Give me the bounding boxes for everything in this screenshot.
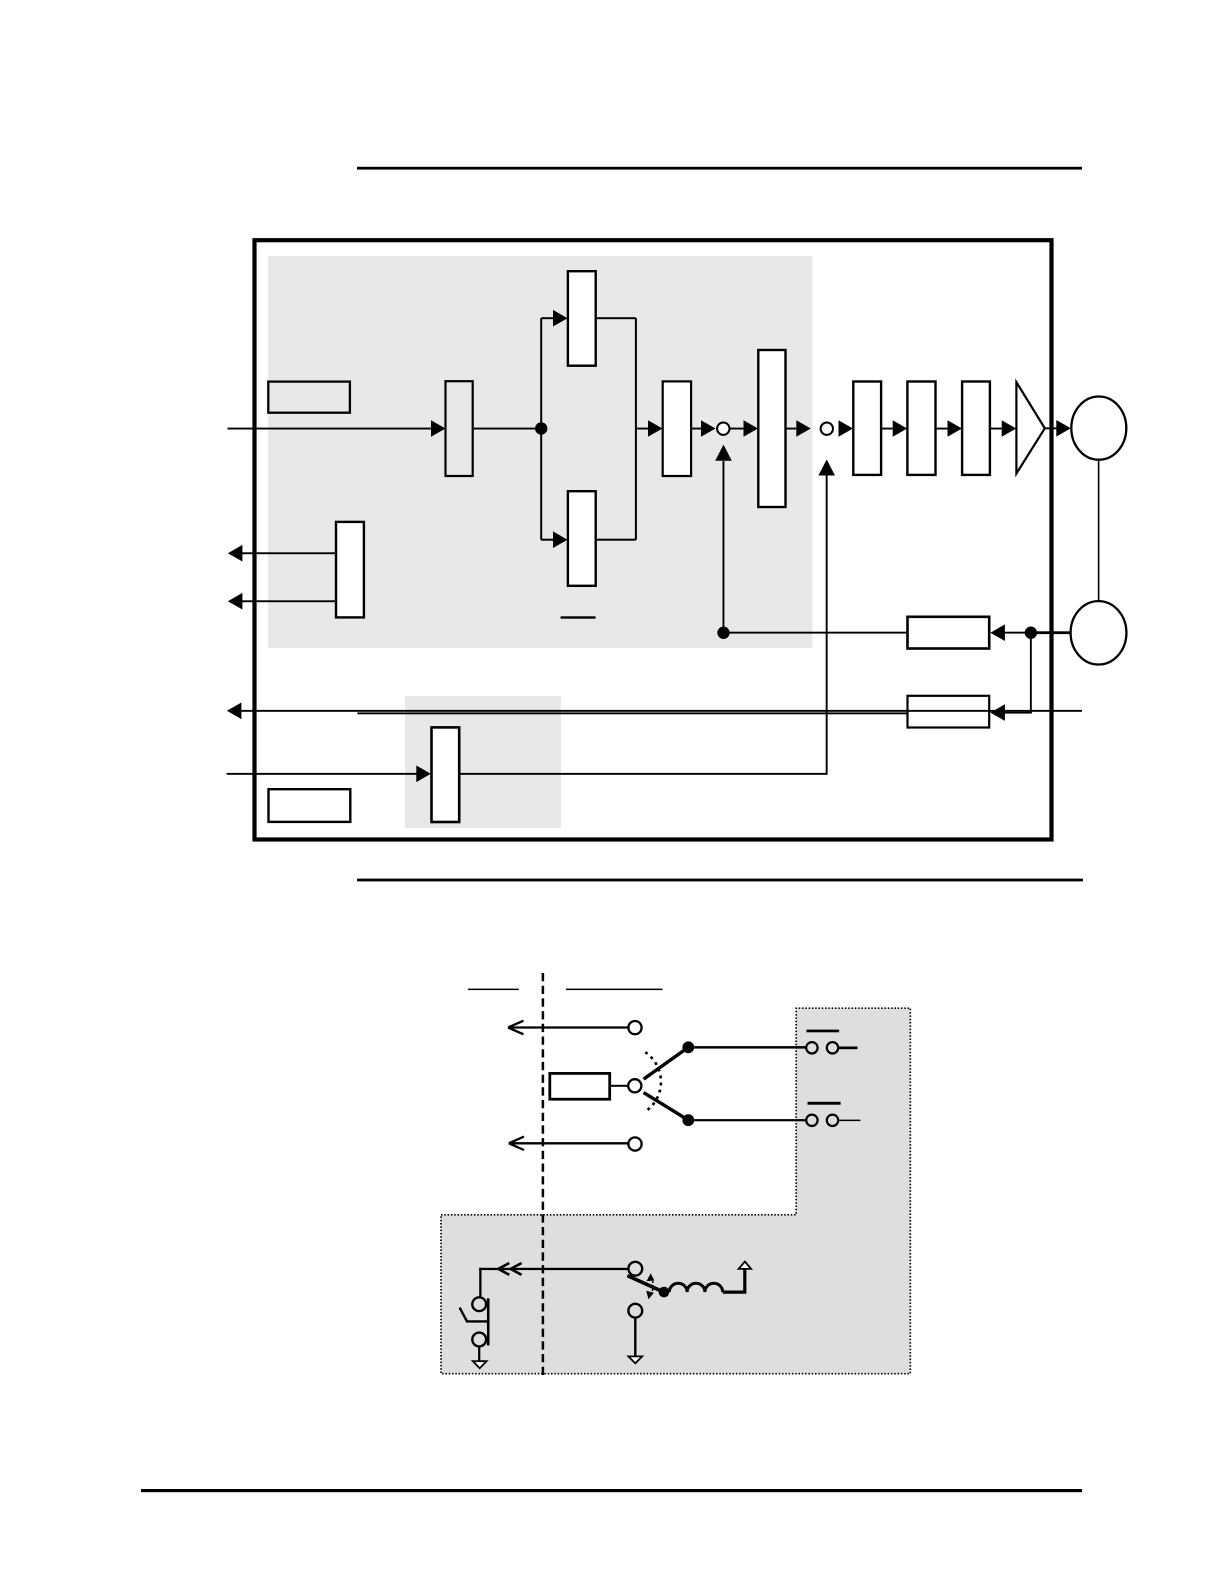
wire: junction vertical branch xyxy=(540,318,542,540)
middle horizontal rule xyxy=(357,879,1083,882)
relay coil (3 loops) xyxy=(669,1283,722,1292)
wire: RX pin into box xyxy=(1031,631,1071,634)
wire: merge vertical line xyxy=(635,318,637,540)
arrow into mid block xyxy=(648,420,663,437)
label box top-left xyxy=(268,382,350,413)
analog switch lower circle xyxy=(628,1304,642,1318)
arrow before gate circle 2 xyxy=(796,420,811,437)
relay contact dot upper xyxy=(682,1041,694,1053)
arrow into driver stage 2 xyxy=(893,420,908,437)
hook contact circle lower xyxy=(472,1333,486,1347)
arrow up into gate circle 1 xyxy=(715,445,732,461)
wire: B1 to junction xyxy=(473,428,542,430)
hook contact circle upper xyxy=(472,1297,486,1311)
terminal circle upper xyxy=(628,1021,641,1034)
wire: shift block to gate circle 2 xyxy=(786,428,797,430)
wire: lower terminal ground stem xyxy=(634,1318,636,1356)
receive register block xyxy=(432,727,460,822)
wire: RX dot vertical down xyxy=(1030,633,1032,713)
terminal circle lower xyxy=(628,1137,641,1150)
relay pivot circle xyxy=(628,1079,641,1092)
arrow into block B1 xyxy=(431,420,446,437)
wire: down elbow to filter 2 xyxy=(1005,712,1032,714)
arrow into output buffer xyxy=(1002,420,1017,437)
hook pole bar xyxy=(487,1298,490,1345)
arrow into tall shift block xyxy=(744,420,759,437)
wire: lower branch horizontal xyxy=(541,539,554,541)
bottom horizontal rule xyxy=(141,1489,1082,1492)
arrow into receive register xyxy=(416,766,431,783)
relay contact dot lower xyxy=(682,1114,694,1126)
switch S2 overline xyxy=(808,1102,841,1105)
wire: lower register output xyxy=(596,539,636,541)
wire: main input line xyxy=(228,428,433,430)
arrow before gate circle 1 xyxy=(701,420,716,437)
arrow into upper register xyxy=(553,310,568,327)
wire: relay box to pivot xyxy=(610,1085,629,1087)
driver stage block 1 xyxy=(853,382,881,475)
analog switch top circle xyxy=(628,1262,642,1276)
wire: upper branch horizontal xyxy=(541,317,554,319)
mid block (mux output) xyxy=(663,381,691,476)
overline mark under registers xyxy=(561,616,596,618)
arrow up into gate circle 2 xyxy=(818,460,835,476)
hook ground stem xyxy=(478,1347,480,1361)
wire: pin link vertical xyxy=(1098,460,1100,602)
junction node dot xyxy=(535,422,547,434)
block B1 (input register) xyxy=(446,381,473,476)
wire: lower input line xyxy=(227,773,417,775)
tall shift register block xyxy=(758,350,785,507)
motion arrow (dotted, two heads) xyxy=(650,1278,653,1296)
shaded region 2 (receive logic) xyxy=(405,696,561,828)
arrow into output pin xyxy=(1056,420,1071,437)
dashed isolation line xyxy=(542,973,545,1379)
node dot on feedback xyxy=(717,627,729,639)
switch S2 contact circles xyxy=(806,1115,817,1126)
ground arrow (open, down) xyxy=(628,1356,642,1363)
top horizontal rule xyxy=(357,167,1082,170)
label box bottom-left xyxy=(269,789,351,822)
arrow into filter 1 xyxy=(990,624,1005,641)
wire: stage2 to stage3 xyxy=(936,428,948,430)
wire: vertical up to gate circle 2 xyxy=(826,476,828,775)
wire: line B into filter 2 xyxy=(357,712,907,714)
relay coil box xyxy=(550,1073,610,1099)
wire: lower left signal with open arrow xyxy=(509,1137,628,1150)
hook lever xyxy=(460,1308,488,1322)
wire: status out 2 xyxy=(242,600,337,602)
switch S1 overline xyxy=(807,1030,840,1033)
wire: upper register output xyxy=(596,317,636,319)
relay blade upper xyxy=(644,1048,687,1079)
overline label right of dashed line xyxy=(566,989,663,991)
wire: long line A with left arrow xyxy=(241,710,1082,712)
switch S2 right stub xyxy=(838,1120,860,1122)
relay blade lower xyxy=(644,1093,687,1120)
arrow into driver stage 3 xyxy=(948,420,963,437)
gate circle 2 xyxy=(821,423,833,435)
wire: upper left signal with open arrow xyxy=(508,1021,628,1035)
output pin circle (TX) xyxy=(1071,397,1126,460)
driver stage block 2 xyxy=(907,382,935,475)
wire: receive register output xyxy=(459,773,827,775)
node dot at RX entry xyxy=(1025,627,1037,639)
gate circle 1 xyxy=(717,423,729,435)
arrowhead of long line A xyxy=(227,703,242,720)
wire: hook line horizontal xyxy=(479,1268,628,1270)
wire: feedback vertical up xyxy=(723,461,725,633)
arrow into lower register xyxy=(553,531,568,548)
dotted travel arc xyxy=(645,1052,661,1111)
switch S1 contact circles xyxy=(806,1042,817,1053)
left status register block xyxy=(336,522,364,618)
wire: upper contact to switch S1 xyxy=(694,1046,806,1049)
hook ground arrow (open) xyxy=(473,1361,487,1368)
wire: mid block to gate circle xyxy=(691,428,701,430)
wire: coil to supply xyxy=(723,1269,745,1293)
switch S1 right stub xyxy=(838,1047,857,1050)
wire: filter1 output to left xyxy=(724,632,908,634)
chevron arrows on hook line xyxy=(498,1263,521,1275)
arrow into filter 2 xyxy=(990,704,1005,721)
shaded region 1 (transmit logic) xyxy=(268,256,813,648)
shaded L-region (hybrid side) xyxy=(441,1008,910,1373)
main block diagram border xyxy=(255,240,1052,839)
wire: buffer to border xyxy=(1045,427,1057,429)
arrowhead status 1 xyxy=(228,545,243,562)
output buffer triangle xyxy=(1016,382,1044,473)
arrow into driver stage 1 xyxy=(839,420,854,437)
wire: dot to filter 1 xyxy=(1005,632,1031,634)
upper register block xyxy=(568,271,596,366)
wire: lower contact to switch S2 xyxy=(694,1119,806,1121)
wire: stage1 to stage2 xyxy=(881,428,893,430)
supply arrow (open, up) xyxy=(739,1262,752,1269)
wire: merge to mid block xyxy=(636,428,648,430)
wire: status out 1 xyxy=(242,552,337,554)
wire: stage3 to buffer xyxy=(990,428,1002,430)
input pin circle (RX) xyxy=(1071,601,1127,664)
filter block 2 xyxy=(908,696,990,728)
analog switch blade xyxy=(627,1276,662,1292)
wire: hook elbow vertical xyxy=(479,1268,481,1297)
lower register block xyxy=(568,491,596,586)
filter block 1 xyxy=(908,617,990,649)
analog switch common dot xyxy=(659,1287,670,1298)
overline label left of dashed line xyxy=(468,989,519,991)
driver stage block 3 xyxy=(962,382,990,475)
arrowhead status 2 xyxy=(228,593,243,610)
wire: gate1 to shift block xyxy=(730,428,744,430)
